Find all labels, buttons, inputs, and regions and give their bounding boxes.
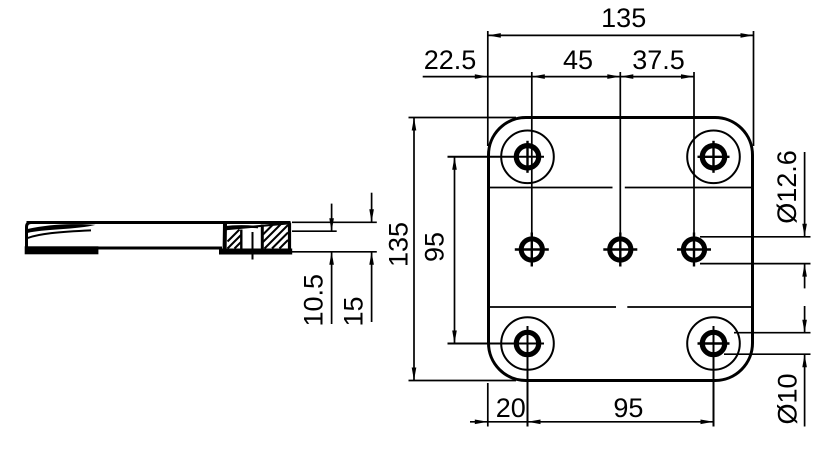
extension line top of side view: [292, 221, 377, 223]
hole bottom-left ring: [516, 332, 538, 354]
hole middle-center crosshair: [603, 233, 637, 267]
dimension 95 left line: [454, 157, 456, 344]
bottom chain arrowheads: [475, 420, 488, 425]
section block bottom lip: [219, 249, 292, 255]
dimension dia12.6 tangent top: [700, 236, 811, 238]
dimension 10.5 line: [331, 204, 333, 324]
hole top-left washer: [501, 131, 554, 184]
dimension 95 left arrowheads: [452, 157, 457, 170]
hole middle-left ring: [521, 239, 542, 260]
hole bottom-right washer: [687, 317, 740, 370]
hole bottom-left washer: [501, 317, 554, 370]
svg-text:Ø12.6: Ø12.6: [772, 150, 802, 224]
section block left edge: [223, 224, 227, 251]
svg-text:15: 15: [339, 296, 369, 326]
side view spring lower curve: [28, 230, 91, 238]
svg-text:95: 95: [420, 232, 450, 262]
extension line hole row top: [448, 156, 545, 158]
extension line hole row bottom: [448, 343, 545, 345]
dimension dia12.6 tangent bottom: [700, 263, 811, 265]
section block top slant line: [226, 223, 290, 229]
dimension bottom chain line: [470, 421, 714, 423]
hole top-right crosshair: [698, 141, 730, 173]
svg-text:45: 45: [563, 45, 593, 75]
svg-text:10.5: 10.5: [299, 274, 329, 327]
bend line upper: [490, 187, 751, 189]
dimension 15 arrowheads: [369, 209, 374, 222]
hole bottom-right crosshair horizontal: [698, 342, 730, 344]
svg-text:135: 135: [384, 222, 414, 267]
hole middle-center ring: [610, 239, 631, 260]
svg-text:22.5: 22.5: [424, 45, 477, 75]
dimension 135 left arrowheads: [412, 118, 417, 131]
dimension dia10 line: [804, 306, 806, 427]
dimension 15 line: [371, 193, 373, 322]
dimension dia12.6 line: [804, 152, 806, 288]
extension line bottom-right hole column: [713, 326, 715, 427]
section block right edge: [288, 223, 291, 253]
section block dome curve: [224, 226, 259, 227]
side view left edge: [27, 223, 32, 252]
side view spring crescent: [28, 224, 96, 233]
extension line hole column 3: [693, 72, 695, 233]
hole middle-right ring: [683, 239, 704, 260]
extension line plate bottom left: [409, 380, 517, 382]
extension line plate top left: [409, 117, 517, 119]
svg-text:37.5: 37.5: [632, 45, 685, 75]
extension line bottom-left hole column: [527, 326, 529, 427]
section hatch left: [228, 230, 242, 249]
section hatch right: [263, 225, 288, 249]
bend line lower: [490, 306, 751, 308]
dimension 10.5 arrowheads: [329, 218, 334, 231]
svg-text:135: 135: [601, 3, 646, 33]
extension line hole column 1: [531, 72, 533, 233]
hole top-left crosshair: [526, 141, 528, 173]
side view bottom edge: [27, 247, 223, 250]
side view top edge: [27, 221, 291, 224]
extension line mid of side view: [292, 230, 337, 232]
extension line bottom of side view: [292, 251, 377, 253]
svg-text:Ø10: Ø10: [773, 373, 803, 424]
hole bottom-right ring: [702, 332, 724, 354]
dimension dia10 tangent top: [734, 332, 811, 334]
svg-text:20: 20: [496, 393, 526, 423]
dimension 135 top arrowheads: [488, 33, 501, 38]
hole top-left ring: [516, 146, 538, 168]
extension line plate left top: [487, 31, 489, 146]
hole middle-left crosshair: [515, 233, 549, 267]
section hole left wall: [240, 230, 242, 249]
plate outline: [489, 118, 753, 381]
dimension chain line 22.5 45 37.5: [423, 76, 694, 78]
extension line plate right top: [753, 31, 755, 146]
hole top-right washer: [687, 131, 740, 184]
svg-text:95: 95: [613, 393, 643, 423]
section hole right wall: [261, 225, 264, 249]
side view left bottom lip: [25, 246, 99, 254]
dimension 135 top line: [488, 34, 754, 36]
dimension dia10 arrowheads: [802, 320, 807, 333]
hole middle-right crosshair: [677, 233, 711, 267]
hole top-right ring: [702, 146, 724, 168]
extension line plate left bottom: [487, 383, 489, 427]
dimension dia10 tangent bottom: [724, 353, 811, 355]
section centerline: [252, 232, 254, 260]
chain arrowheads: [475, 74, 488, 79]
dimension dia12.6 arrowheads: [802, 224, 807, 237]
dimension 135 left line: [413, 118, 415, 381]
extension line hole column 2: [619, 72, 621, 233]
